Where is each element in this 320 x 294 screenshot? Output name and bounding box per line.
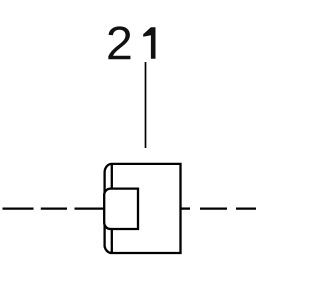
component body (cylindrical block): [105, 164, 181, 253]
leader line from label 21: [145, 62, 147, 148]
silhouette tangent line of curved left face: [111, 164, 113, 253]
protruding boss (small rounded box): [104, 189, 138, 229]
wire: centerline left dash 3: [75, 207, 106, 209]
wire: centerline left dash 2: [41, 207, 67, 209]
patent-style figure: component 21 on a dashed centerline: [0, 0, 256, 294]
wire: centerline left dash 1: [3, 207, 34, 209]
wire: centerline right dash 2: [200, 207, 227, 209]
wire: centerline right dash 3: [236, 207, 256, 209]
label 21: digit 2 (Liberation Sans outline): [108, 26, 130, 59]
label 21: digit 1 (drawn, no foot serif): [143, 27, 155, 59]
wire: centerline right stub: [181, 207, 191, 209]
